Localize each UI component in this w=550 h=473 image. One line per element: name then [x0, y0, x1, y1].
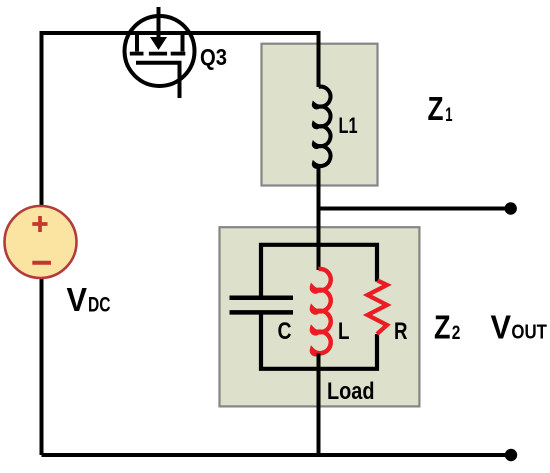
- wire load inner rectangle bottom: [261, 312, 377, 369]
- svg-text:L: L: [338, 318, 350, 345]
- Q3 right staple: [181, 33, 185, 52]
- resistor R: [368, 281, 388, 335]
- inductor L (load): [312, 269, 331, 354]
- wire left vertical lower: [40, 278, 44, 456]
- svg-text:DC: DC: [88, 293, 111, 317]
- Q3 drain lead and arrow: [157, 7, 161, 40]
- VDC minus sign: [32, 261, 51, 265]
- wire output tap horizontal: [319, 207, 507, 211]
- wire main vertical above L1: [317, 31, 321, 87]
- svg-text:V: V: [67, 281, 88, 318]
- Q3 right channel bar: [171, 52, 186, 56]
- svg-text:Z: Z: [434, 309, 451, 346]
- svg-text:C: C: [278, 318, 292, 345]
- transistor Q3: [125, 7, 195, 98]
- impedance box Z1: [262, 44, 378, 186]
- voltage source VDC: [5, 206, 77, 278]
- wire top-left horizontal and left vertical upper: [42, 33, 319, 207]
- wire main vertical between L1 and load: [317, 166, 321, 270]
- svg-text:1: 1: [445, 105, 453, 126]
- wire main vertical below load coil: [317, 354, 321, 456]
- svg-text:L1: L1: [339, 113, 358, 138]
- svg-text:R: R: [394, 318, 408, 345]
- Q3 body circle: [125, 16, 195, 86]
- Q3 gate line and lead: [136, 63, 180, 98]
- wire bottom horizontal: [42, 453, 507, 457]
- svg-text:Q3: Q3: [200, 44, 227, 70]
- svg-text:Load: Load: [327, 378, 375, 405]
- svg-text:V: V: [491, 309, 512, 346]
- node output top terminal dot: [505, 202, 517, 214]
- VDC plus sign: [32, 216, 47, 232]
- svg-text:2: 2: [452, 322, 461, 344]
- node output bottom terminal dot: [505, 449, 517, 461]
- capacitor C: [230, 298, 294, 313]
- svg-text:OUT: OUT: [511, 322, 547, 344]
- Q3 left source staple: [135, 33, 139, 52]
- svg-text:Z: Z: [428, 90, 444, 127]
- wire load inner rectangle top: [261, 245, 377, 297]
- inductor L1: [314, 87, 331, 167]
- load box Z2: [220, 227, 420, 406]
- Q3 middle channel bar: [149, 52, 167, 56]
